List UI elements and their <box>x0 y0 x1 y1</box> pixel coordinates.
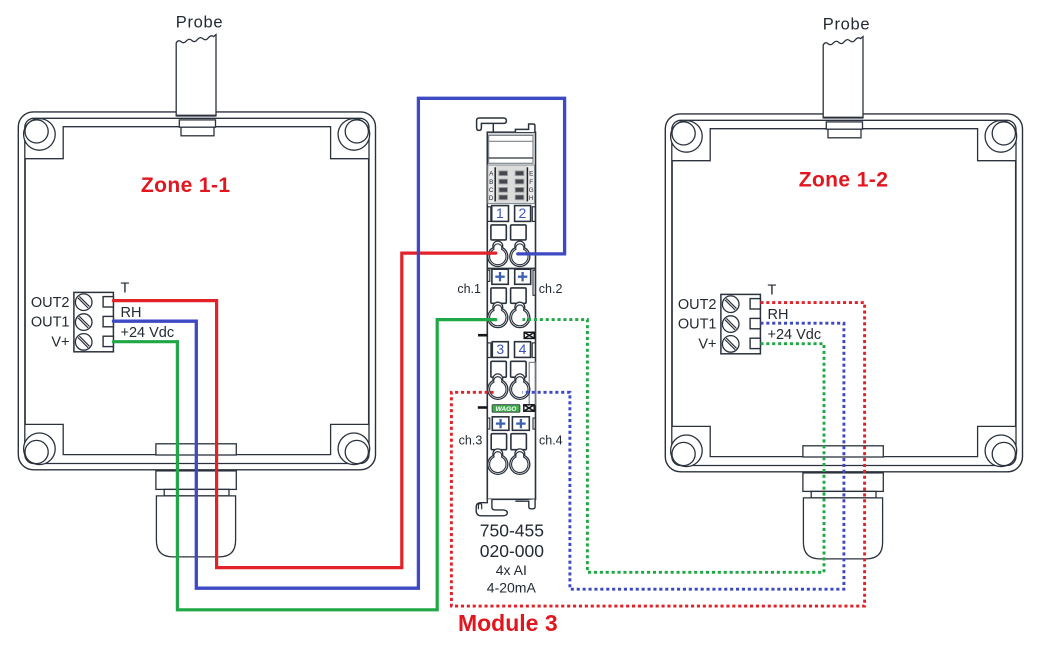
svg-text:020-000: 020-000 <box>480 541 544 561</box>
bus contacts <box>499 171 524 200</box>
terminal clamp row4 left <box>488 449 508 474</box>
corner screw boss top-left <box>671 121 703 153</box>
svg-text:4-20mA: 4-20mA <box>487 580 537 596</box>
terminal clamp row1 right <box>510 241 530 266</box>
svg-text:F: F <box>529 179 533 186</box>
cable gland body <box>156 471 236 490</box>
terminal contact OUT1 <box>103 316 113 326</box>
svg-text:+24 Vdc: +24 Vdc <box>768 327 822 343</box>
svg-text:G: G <box>529 187 534 194</box>
cable gland cup <box>156 496 235 557</box>
wire ports row 1 <box>491 225 526 240</box>
wire RH dotted blue (Zone 1-2 OUT1 to ch.4) <box>523 323 844 589</box>
terminal clamp row1 left <box>488 241 508 266</box>
terminal screw V+ <box>75 334 92 351</box>
probe locknut upper <box>826 122 862 129</box>
terminal clamp row3 right <box>510 374 530 399</box>
svg-text:E: E <box>529 170 533 177</box>
wire T red (Zone 1-1 OUT2 to ch.1) <box>113 253 495 567</box>
probe bottom edge <box>823 117 863 119</box>
svg-text:H: H <box>529 195 534 202</box>
cable gland body <box>803 473 883 492</box>
svg-text:RH: RH <box>768 307 789 323</box>
terminal contact V+ <box>750 338 760 348</box>
divider <box>487 268 535 270</box>
probe locknut lower <box>181 127 214 136</box>
DIN foot slot <box>478 504 481 510</box>
corner screw boss bottom-right <box>338 433 370 465</box>
svg-text:V+: V+ <box>51 335 69 351</box>
svg-text:OUT2: OUT2 <box>31 295 70 311</box>
wire ports row 2 <box>491 288 526 303</box>
svg-text:T: T <box>768 283 777 299</box>
wire ports row 4 <box>491 434 526 450</box>
enclosure inner wall Zone 1-1 <box>25 118 369 463</box>
wire RH blue (Zone 1-1 OUT1 to ch.2) <box>113 98 564 588</box>
svg-text:ch.1: ch.1 <box>457 282 481 296</box>
marker row 3-4 <box>488 342 536 358</box>
svg-text:RH: RH <box>121 305 142 321</box>
wire T dotted red (Zone 1-2 OUT2 to ch.3) <box>451 303 864 606</box>
module top band <box>488 133 535 136</box>
crossed box lower <box>524 405 534 411</box>
enclosure inner wall Zone 1-2 <box>672 120 1016 465</box>
svg-text:ch.2: ch.2 <box>539 282 563 296</box>
terminal screw V+ <box>722 336 739 353</box>
svg-text:+24 Vdc: +24 Vdc <box>121 325 175 341</box>
svg-text:OUT2: OUT2 <box>678 297 717 313</box>
left tick lower <box>478 406 488 409</box>
module top-right tab <box>515 124 535 132</box>
module lid <box>489 135 533 163</box>
svg-text:Module 3: Module 3 <box>458 610 558 636</box>
cable gland nut <box>811 491 876 498</box>
terminal clamp row2 left <box>488 302 508 327</box>
terminal block <box>721 294 761 353</box>
svg-text:OUT1: OUT1 <box>31 315 70 331</box>
corner screw boss top-right <box>985 121 1017 153</box>
svg-text:OUT1: OUT1 <box>678 317 717 333</box>
left tick upper <box>478 334 487 337</box>
DIN rail foot <box>476 499 507 516</box>
terminal contact OUT2 <box>103 297 113 307</box>
terminal screw OUT2 <box>75 294 92 311</box>
svg-text:T: T <box>121 281 130 297</box>
plus markers lower <box>488 417 536 431</box>
corner screw boss top-right <box>338 119 370 151</box>
corner screw boss bottom-right <box>985 435 1017 467</box>
I/O module 750-455 (Module 3) <box>457 118 562 596</box>
svg-text:4x AI: 4x AI <box>496 562 527 578</box>
cable gland flange <box>156 444 236 455</box>
DIP labels E-H <box>529 170 534 202</box>
svg-text:Probe: Probe <box>823 16 871 34</box>
wire +24Vdc green (Zone 1-1 V+ to ch.2 clamp) <box>113 320 495 610</box>
probe body <box>176 35 216 116</box>
enclosure Zone 1-2 <box>665 16 1022 559</box>
inner compartment outline Zone 1-1 <box>25 127 368 455</box>
DIP/bus contact panel <box>488 165 535 204</box>
terminal clamp row2 right <box>510 302 530 327</box>
probe locknut lower <box>828 129 861 138</box>
svg-text:2: 2 <box>519 205 527 221</box>
cable gland nut <box>164 489 229 496</box>
svg-text:WAGO: WAGO <box>496 406 518 413</box>
svg-text:V+: V+ <box>698 337 716 353</box>
cable gland cup <box>803 498 882 559</box>
terminal block <box>74 292 114 351</box>
module latch <box>477 118 507 132</box>
cable gland flange <box>803 446 883 457</box>
wire ports row 3 <box>491 361 535 404</box>
terminal contact OUT2 <box>750 299 760 309</box>
probe body <box>823 37 863 118</box>
svg-text:B: B <box>489 179 493 186</box>
enclosure outer shell Zone 1-1 <box>18 112 375 470</box>
probe locknut upper <box>179 120 215 127</box>
plus markers upper <box>488 269 536 295</box>
probe bottom edge <box>176 115 216 117</box>
terminal screw OUT1 <box>75 314 92 331</box>
svg-text:Zone 1-2: Zone 1-2 <box>799 169 889 192</box>
svg-text:Probe: Probe <box>176 14 224 32</box>
corner screw boss bottom-left <box>24 433 56 465</box>
terminal contact OUT1 <box>750 318 760 328</box>
inner compartment outline Zone 1-2 <box>672 129 1015 457</box>
svg-text:C: C <box>489 187 494 194</box>
DIN foot right step <box>515 499 535 509</box>
svg-text:ch.4: ch.4 <box>539 434 563 448</box>
terminal contact V+ <box>103 336 113 346</box>
terminal screw OUT1 <box>722 316 739 333</box>
svg-text:4: 4 <box>519 341 527 357</box>
corner screw boss top-left <box>24 119 56 151</box>
crossed box upper <box>524 332 534 338</box>
corner screw boss bottom-left <box>671 435 703 467</box>
svg-text:ch.3: ch.3 <box>459 434 483 448</box>
marker row 1-2 <box>488 206 536 222</box>
svg-text:750-455: 750-455 <box>480 521 544 541</box>
enclosure Zone 1-1 <box>18 14 375 557</box>
terminal clamp row4 right <box>510 449 530 474</box>
svg-text:Zone 1-1: Zone 1-1 <box>141 174 231 197</box>
svg-text:D: D <box>489 195 494 202</box>
enclosure outer shell Zone 1-2 <box>665 114 1022 472</box>
svg-text:1: 1 <box>496 205 504 221</box>
terminal screw OUT2 <box>722 296 739 313</box>
svg-text:3: 3 <box>496 341 504 357</box>
module body <box>487 132 535 499</box>
DIP labels A-D <box>489 170 494 202</box>
wire +24Vdc dotted green (Zone 1-2 V+ to ch.2 clamp) <box>523 320 825 573</box>
WAGO logo <box>492 405 520 413</box>
terminal clamp row3 left <box>488 374 508 399</box>
